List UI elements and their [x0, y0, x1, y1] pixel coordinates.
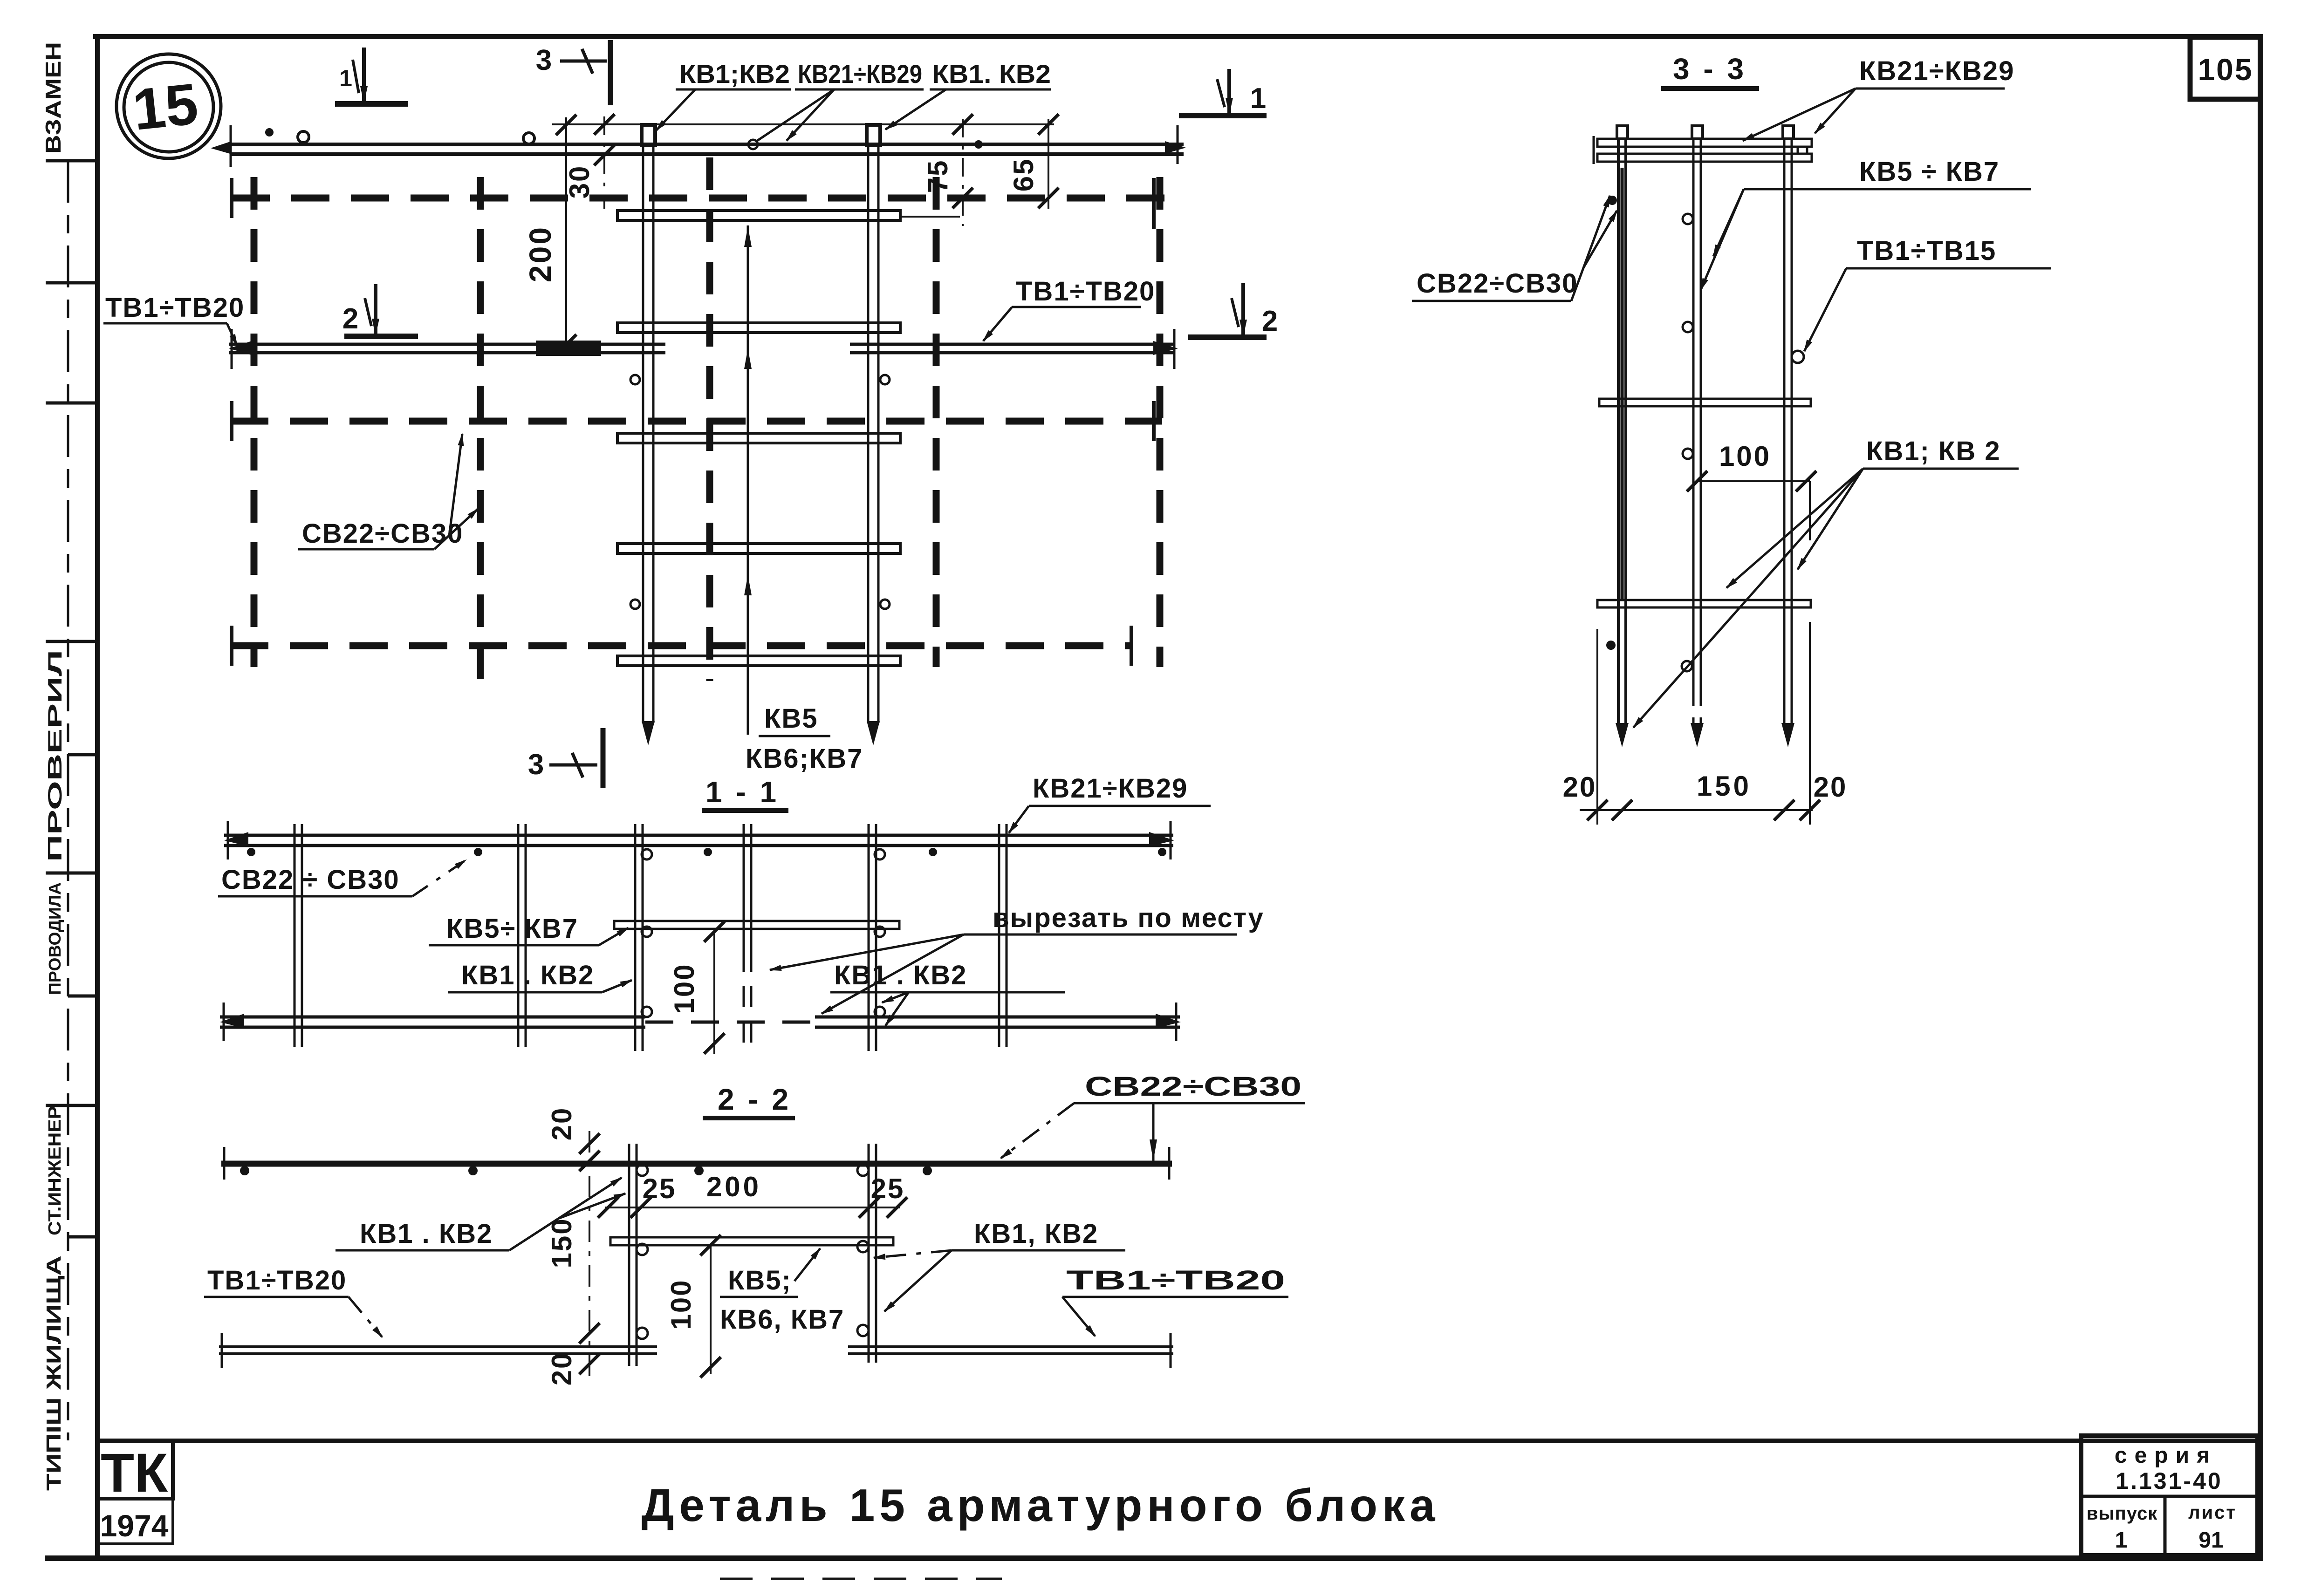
sheet border left: [95, 34, 100, 1561]
svg-text:КВ21÷КВ29: КВ21÷КВ29: [1859, 56, 2014, 86]
section mark 2 right: [1188, 283, 1278, 337]
dim 65 tick bottom: [1038, 188, 1059, 208]
1-1 post 4 centre dashed: [743, 824, 745, 950]
svg-text:ПРОВЕРИЛ: ПРОВЕРИЛ: [44, 650, 66, 862]
dashed row 1: [232, 195, 1180, 202]
dashed row 1 left tick: [230, 178, 233, 218]
svg-text:ТИПІШ ЖИЛИЩА: ТИПІШ ЖИЛИЩА: [42, 1255, 65, 1491]
svg-text:100: 100: [1719, 441, 1771, 472]
svg-text:1: 1: [2115, 1528, 2128, 1553]
1-1 top chord upper line: [224, 834, 1173, 837]
bottom strip top line: [95, 1439, 2258, 1443]
plan bar КВ1 left line b: [652, 145, 655, 723]
weld dot on top rail 2: [974, 140, 983, 149]
plan ТВ row left segment lower: [229, 351, 665, 355]
dashed row 2 left tick: [230, 401, 233, 441]
stamp column tick row 1: [46, 159, 97, 163]
1-1 post 6: [998, 824, 1000, 1047]
1-1 bottom chord right part lower: [815, 1026, 1180, 1029]
3-3 bar middle: [1692, 139, 1695, 689]
dim 200 vertical line: [565, 117, 567, 345]
weld circles on plan bars: [630, 375, 640, 384]
dim 30 tick bottom: [594, 145, 615, 165]
section mark 3 top: [536, 40, 610, 105]
svg-text:91: 91: [2198, 1528, 2223, 1553]
2-2 top chord СВ bar: [221, 1161, 1172, 1167]
svg-text:1: 1: [1250, 82, 1266, 115]
title block v divider: [2164, 1496, 2167, 1555]
1-1 post 5 КВ2: [868, 824, 870, 1051]
dashed row 2 right tick: [1152, 401, 1156, 441]
1-1 bottom chord left arrow: [220, 1014, 244, 1028]
1-1 bottom chord right arrow: [1156, 1014, 1181, 1028]
svg-text:15: 15: [130, 71, 201, 143]
svg-text:лист: лист: [2188, 1502, 2237, 1523]
2-2 bottom chord right ТВ lower: [848, 1352, 1173, 1355]
1-1 dim 100: [713, 929, 715, 1054]
stamp column tick row 5: [68, 753, 97, 757]
svg-text:КВ1. КВ2: КВ1. КВ2: [932, 59, 1051, 89]
3-3 bar stub caps: [1617, 126, 1628, 139]
dim 200 extension line: [552, 123, 1054, 125]
3-3 right small stub: [1798, 147, 1807, 154]
2-2 dim 25 200 25 line: [605, 1207, 900, 1208]
ТК box: [97, 1440, 173, 1499]
svg-text:СВ22÷СВ30: СВ22÷СВ30: [1085, 1071, 1301, 1102]
plan top rail right end tick: [1177, 125, 1179, 164]
svg-text:3: 3: [536, 44, 552, 76]
svg-text:КВ1 . КВ2: КВ1 . КВ2: [834, 960, 967, 990]
stamp column inner line: [67, 161, 69, 1440]
svg-text:КВ5÷ КВ7: КВ5÷ КВ7: [446, 914, 578, 944]
svg-text:ТВ1÷ТВ15: ТВ1÷ТВ15: [1857, 236, 1996, 266]
2-2 dim line vertical 20-150-20: [589, 1131, 590, 1377]
3-3 left end hook: [1593, 136, 1595, 164]
svg-text:СВ22÷СВ30: СВ22÷СВ30: [1417, 268, 1578, 299]
plan top rail СВ22-СВ30 upper line: [231, 143, 1184, 146]
svg-text:ТВ1÷ТВ20: ТВ1÷ТВ20: [1066, 1265, 1285, 1296]
weld circle on top rail: [298, 131, 309, 143]
svg-text:выпуск: выпуск: [2087, 1503, 2157, 1524]
1-1 top chord right arrow: [1149, 832, 1174, 846]
svg-text:СВ22 ÷ СВ30: СВ22 ÷ СВ30: [221, 865, 400, 895]
section mark 2 left: [342, 284, 418, 336]
plan ТВ row right arrow: [1153, 341, 1178, 355]
2-2 bottom chord left ТВ upper: [219, 1345, 657, 1348]
1-1 post 3 КВ1: [634, 824, 637, 1051]
plan top rail right arrow: [1165, 141, 1186, 154]
1-1 bottom chord cutout dashed: [645, 1021, 815, 1024]
2-2 post right КВ2: [868, 1144, 870, 1363]
dim 200 tick bottom: [556, 334, 576, 355]
dim 30 vertical line: [603, 116, 605, 209]
plan cross rail 4: [617, 544, 900, 553]
svg-text:ТВ1÷ТВ20: ТВ1÷ТВ20: [105, 293, 245, 323]
plan bar КВ2 right cap: [867, 125, 880, 145]
3-3 lower rail: [1597, 600, 1811, 607]
1-1 post 2: [517, 824, 520, 1047]
plan ТВ row right end tick: [1173, 329, 1176, 369]
dashed row 2: [230, 418, 1162, 425]
svg-text:ПРОВОДИЛА: ПРОВОДИЛА: [45, 882, 64, 995]
svg-text:КВ5 ÷ КВ7: КВ5 ÷ КВ7: [1859, 157, 2000, 187]
plan ТВ row right segment upper: [850, 343, 1175, 346]
dashed row 3: [230, 642, 1132, 649]
dim 75 vertical line: [962, 119, 964, 226]
1-1 top chord lower line: [224, 844, 1173, 847]
3-3 middle rail: [1599, 399, 1811, 406]
1-1 weld circles at posts: [642, 849, 652, 859]
section mark 1 top: [335, 48, 408, 104]
3-3 top rail 1: [1597, 139, 1812, 147]
svg-text:1 - 1: 1 - 1: [705, 775, 779, 809]
svg-text:20: 20: [1563, 771, 1597, 803]
3-3 bottom dim line: [1580, 809, 1813, 811]
svg-text:3: 3: [528, 749, 544, 781]
svg-text:30: 30: [564, 165, 595, 199]
1-1 bottom chord left part lower: [220, 1026, 645, 1029]
plan ТВ row left end tick: [231, 329, 233, 369]
plan top rail lower line: [231, 152, 1184, 156]
2-2 bottom chord left tick: [221, 1333, 223, 1368]
dim 75 tick top: [952, 114, 973, 135]
svg-text:1: 1: [339, 65, 352, 91]
weld circle on top rail 2: [523, 133, 534, 144]
svg-text:2: 2: [1262, 305, 1278, 337]
title block outer: [2081, 1436, 2258, 1555]
dashed row 1 right tick: [1152, 178, 1156, 229]
3-3 weld circle right bar: [1792, 351, 1804, 363]
svg-text:75: 75: [922, 159, 953, 193]
plan cross rail 1: [617, 211, 900, 220]
svg-text:КВ1 . КВ2: КВ1 . КВ2: [461, 960, 594, 990]
svg-text:25: 25: [643, 1173, 677, 1204]
dashed column 5: [1157, 177, 1164, 667]
svg-text:серия: серия: [2115, 1443, 2217, 1468]
stamp column tick row 3: [46, 402, 97, 405]
3-3 top rail 2: [1597, 154, 1812, 162]
2-2 weld dots under chord: [240, 1166, 249, 1175]
svg-text:КВ6, КВ7: КВ6, КВ7: [720, 1304, 844, 1335]
dim 75 tick bottom: [952, 188, 973, 208]
3-3 bar right: [1783, 139, 1786, 725]
plan ТВ row right segment lower: [850, 351, 1175, 355]
stamp column tick row 6: [46, 872, 97, 875]
plan cross rail 5: [617, 656, 900, 666]
detail bubble circle 15 outer: [116, 54, 221, 158]
2-2 dim 100: [710, 1245, 712, 1374]
sheet border right: [2258, 34, 2263, 1561]
svg-text:20: 20: [1814, 771, 1848, 803]
svg-text:20: 20: [546, 1107, 577, 1141]
svg-text:КВ21÷КВ29: КВ21÷КВ29: [798, 59, 922, 89]
svg-text:СТ.ИНЖЕНЕР: СТ.ИНЖЕНЕР: [45, 1106, 65, 1235]
3-3 bottom dim extension lines: [1596, 629, 1598, 825]
svg-text:1974: 1974: [100, 1508, 169, 1543]
1-1 bottom chord left part upper: [220, 1016, 645, 1019]
detail bubble circle 15 inner: [124, 62, 213, 152]
sheet border top: [93, 34, 2263, 39]
stamp column tick row 2: [46, 281, 97, 285]
svg-text:ТВ1÷ТВ20: ТВ1÷ТВ20: [1016, 276, 1155, 307]
1-1 weld dots under top chord: [247, 848, 255, 856]
leader КВ5 vertical: [747, 225, 749, 735]
stamp column tick row 4: [46, 640, 97, 643]
2-2 top chord right tick: [1168, 1147, 1171, 1180]
stamp column tick row 9: [68, 1235, 97, 1239]
svg-text:200: 200: [523, 225, 557, 282]
svg-text:20: 20: [546, 1352, 577, 1386]
dashed column 4: [933, 177, 940, 667]
plan cross rail 3: [617, 433, 900, 443]
svg-text:ТК: ТК: [101, 1442, 168, 1504]
dashed column 3: [706, 157, 713, 681]
plan cross rail 2: [617, 323, 900, 333]
svg-text:1.131-40: 1.131-40: [2116, 1468, 2222, 1494]
svg-text:КВ5: КВ5: [764, 703, 818, 734]
plan bar КВ1 left line a: [642, 145, 644, 723]
svg-text:ТВ1÷ТВ20: ТВ1÷ТВ20: [207, 1265, 347, 1296]
svg-text:100: 100: [669, 963, 700, 1014]
dashed row 3 right tick: [1130, 626, 1133, 666]
stamp column tick row 7: [68, 995, 97, 998]
3-3 weld dots left bar: [1608, 196, 1617, 205]
2-2 top chord left tick: [223, 1147, 226, 1180]
plan bar КВ1 left cap: [642, 125, 655, 145]
3-3 bar left СВ (dark): [1617, 139, 1620, 725]
plan bar КВ2 right line b: [877, 145, 880, 723]
dim 30 tick top: [594, 114, 615, 135]
dim 200 tick top: [556, 115, 576, 135]
svg-text:200: 200: [706, 1171, 761, 1202]
plan top rail left arrow: [211, 141, 232, 154]
plan bar КВ1 left bottom arrow: [642, 721, 655, 745]
plan ТВ row overlap blob: [536, 341, 601, 356]
svg-text:вырезать по месту: вырезать по месту: [993, 903, 1264, 933]
2-2 bottom chord right ТВ upper: [848, 1345, 1173, 1348]
1-1 top chord left arrow: [224, 832, 248, 846]
svg-text:2 - 2: 2 - 2: [718, 1083, 791, 1116]
svg-text:25: 25: [871, 1173, 905, 1204]
svg-text:ВЗАМЕН: ВЗАМЕН: [41, 42, 65, 154]
2-2 weld circles left post: [637, 1165, 648, 1176]
svg-text:2: 2: [342, 303, 358, 335]
svg-text:КВ1;КВ2: КВ1;КВ2: [679, 59, 790, 89]
stamp column tick row 8: [46, 1104, 97, 1107]
dashed column 1: [251, 177, 258, 667]
2-2 bottom chord left ТВ lower: [219, 1352, 657, 1355]
1-1 middle rail КВ5: [614, 921, 899, 929]
scan artifact dashes below border: [720, 1578, 1002, 1580]
plan bar КВ2 right line a: [867, 145, 870, 723]
dashed row 3 left tick: [230, 626, 233, 666]
svg-text:КВ6;КВ7: КВ6;КВ7: [746, 743, 863, 774]
svg-text:100: 100: [665, 1279, 697, 1330]
svg-text:3 - 3: 3 - 3: [1673, 52, 1746, 86]
1974 box: [97, 1499, 173, 1544]
2-2 bottom chord right tick: [1170, 1333, 1172, 1368]
2-2 middle rail КВ5: [610, 1237, 893, 1245]
sheet number box 105: [2190, 37, 2260, 99]
plan top rail left end tick: [230, 125, 232, 167]
2-2 post left КВ1: [628, 1144, 630, 1366]
svg-text:КВ1 . КВ2: КВ1 . КВ2: [360, 1219, 493, 1249]
plan bar КВ2 right bottom arrow: [867, 721, 880, 745]
dim 65 vertical line: [1048, 119, 1049, 209]
1-1 bottom chord right part upper: [815, 1016, 1180, 1019]
3-3 bar bottom arrows: [1616, 723, 1629, 747]
svg-text:Деталь 15 арматурного блока: Деталь 15 арматурного блока: [641, 1480, 1439, 1531]
2-2 weld circles right post: [857, 1165, 869, 1176]
svg-text:КВ1, КВ2: КВ1, КВ2: [974, 1219, 1098, 1249]
dim 65 tick top: [1038, 114, 1059, 135]
plan rail1 extension to 75 dim: [901, 216, 960, 218]
svg-text:КВ21÷КВ29: КВ21÷КВ29: [1033, 773, 1188, 804]
svg-text:КВ5;: КВ5;: [728, 1265, 792, 1296]
section mark 3 bottom: [528, 728, 603, 788]
svg-text:КВ1; КВ 2: КВ1; КВ 2: [1866, 436, 2001, 466]
sheet border bottom: [45, 1555, 2263, 1561]
title block h divider: [2081, 1495, 2258, 1498]
section mark 1 right: [1179, 69, 1267, 116]
svg-text:65: 65: [1008, 158, 1039, 192]
plan ТВ row left segment upper: [229, 343, 665, 346]
3-3 weld circles middle bar: [1683, 214, 1693, 224]
svg-text:105: 105: [2198, 52, 2253, 87]
plan ТВ row left arrow: [229, 341, 252, 355]
1-1 post 1: [294, 824, 296, 1047]
weld dot on top rail: [265, 128, 274, 136]
svg-text:150: 150: [546, 1217, 577, 1268]
svg-text:150: 150: [1697, 771, 1752, 802]
dashed column 2: [477, 177, 484, 680]
